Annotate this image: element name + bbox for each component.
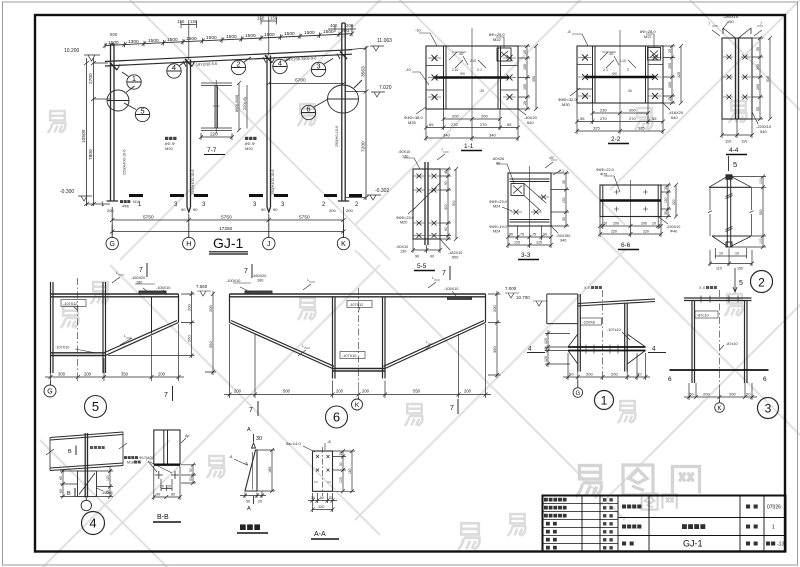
- svg-text:M20: M20: [165, 146, 174, 151]
- svg-text:07026: 07026: [767, 505, 781, 511]
- svg-text:5: 5: [140, 107, 144, 116]
- leader -182X10 500 right bottom 5-5: [440, 239, 450, 250]
- svg-text:540: 540: [760, 129, 767, 134]
- svg-text:H: H: [186, 241, 191, 248]
- bolts 3-3: [511, 195, 549, 215]
- section marks 7 detail6: [252, 264, 458, 416]
- end ticks detail4: [50, 432, 123, 471]
- svg-text:1500: 1500: [284, 31, 295, 37]
- top chamfer 4-4: [723, 28, 751, 38]
- svg-text:30: 30: [256, 436, 262, 442]
- title 6-6: [618, 242, 639, 250]
- svg-text:200: 200: [234, 389, 242, 394]
- centre line 6-6: [630, 180, 632, 222]
- label -87x10 detail3: [720, 345, 725, 350]
- column G: [111, 44, 115, 201]
- column centre dash detail6: [358, 288, 360, 385]
- svg-text:340: 340: [560, 239, 566, 243]
- bolts 4-4: [723, 55, 751, 100]
- left dimension chain: [84, 58, 110, 206]
- column centre dash detail1: [602, 290, 604, 378]
- svg-text:5a=14.0: 5a=14.0: [286, 441, 301, 446]
- svg-text:Z10: Z10: [470, 59, 476, 63]
- svg-text:L: L: [307, 278, 309, 282]
- svg-text:65: 65: [429, 122, 434, 127]
- corbel bolts detail1: [586, 345, 618, 354]
- svg-text:Φ40: Φ40: [670, 230, 677, 234]
- column H: [187, 60, 191, 213]
- label -107x10 detail1: [622, 332, 630, 340]
- svg-text:120: 120: [106, 475, 110, 481]
- svg-text:4: 4: [278, 59, 282, 68]
- svg-text:105: 105: [339, 477, 343, 483]
- svg-text:-105X10: -105X10: [444, 287, 458, 291]
- svg-text:65: 65: [507, 122, 512, 127]
- svg-text:7: 7: [244, 268, 248, 275]
- section outline B-B: [154, 430, 180, 464]
- bottom dim detail1: [563, 353, 650, 380]
- shaft break marks 5: [726, 194, 733, 232]
- svg-text:90: 90: [637, 372, 642, 377]
- svg-text:-13: -13: [777, 542, 784, 548]
- svg-text:7: 7: [450, 405, 454, 412]
- svg-text:200: 200: [452, 114, 459, 119]
- right inner extension line 5: [750, 187, 754, 236]
- svg-text:25: 25: [339, 452, 343, 456]
- title 3-3: [518, 252, 539, 260]
- diagonal brace mark 5-5: [413, 183, 440, 210]
- svg-text:220(-8): 220(-8): [242, 96, 247, 110]
- svg-text:4: 4: [89, 516, 96, 531]
- svg-text:17250: 17250: [219, 226, 233, 232]
- svg-text:510: 510: [766, 76, 770, 82]
- wind column connection notes: [165, 137, 257, 151]
- svg-text:500: 500: [452, 200, 456, 206]
- svg-text:1500: 1500: [245, 33, 256, 39]
- svg-text:200: 200: [586, 372, 593, 377]
- svg-text:35: 35: [106, 490, 110, 494]
- embedded plate note at G base: [120, 200, 140, 209]
- top tent diagonals 5: [709, 176, 752, 188]
- svg-text:-90X10: -90X10: [398, 150, 410, 154]
- stiffener box 1-1: [497, 48, 511, 61]
- base labels: [101, 202, 359, 208]
- title block date cells: [603, 498, 613, 549]
- svg-text:1500: 1500: [226, 34, 237, 40]
- angle seat box 3-3: [511, 184, 524, 196]
- svg-text:640: 640: [671, 115, 678, 120]
- svg-text:200: 200: [329, 208, 336, 213]
- title block row labels: [544, 498, 567, 550]
- svg-text:55: 55: [756, 107, 760, 111]
- beam top flange detail6: [230, 294, 486, 297]
- svg-text:200: 200: [641, 222, 647, 226]
- top flange 3-3: [510, 179, 550, 182]
- svg-text:6: 6: [306, 105, 310, 114]
- detail number 4 bubble: [82, 512, 105, 535]
- svg-text:90: 90: [569, 372, 574, 377]
- anchor 5 leader into column detail3: [733, 268, 737, 292]
- svg-text:150: 150: [190, 19, 198, 24]
- svg-text:200: 200: [464, 389, 472, 394]
- I-section detail 7-7 inside frame: [201, 80, 232, 134]
- bottom dims wedge: [240, 491, 266, 498]
- svg-text:250(H400-19-6: 250(H400-19-6: [271, 169, 275, 195]
- centre line 1-1: [471, 28, 473, 118]
- leader -10 top left 1-1: [419, 33, 437, 46]
- weld flags 4-4: [712, 26, 763, 36]
- right dim chain 3-3: [551, 171, 569, 228]
- leader bolt labels 3-3: [489, 200, 507, 209]
- svg-text:75: 75: [520, 233, 524, 237]
- svg-text:L10: L10: [620, 59, 626, 63]
- svg-text:X.X: X.X: [584, 286, 591, 290]
- svg-text:-107X12: -107X12: [349, 303, 363, 307]
- svg-text:L: L: [302, 344, 304, 348]
- svg-text:-25X150: -25X150: [556, 234, 570, 238]
- svg-text:M30: M30: [562, 102, 571, 107]
- detail bubble 4 (right): [273, 57, 292, 74]
- bottom dim chains 1-1: [424, 109, 520, 141]
- svg-text:G: G: [109, 241, 114, 248]
- leader bolt label 5-5: [396, 216, 414, 225]
- right dim chain 2-2: [663, 44, 683, 105]
- leader right B-B: [181, 438, 186, 443]
- leader -220X10 40 6-6: [658, 217, 668, 225]
- leader -160X20 180 detail5: [135, 284, 155, 292]
- svg-text:350: 350: [121, 372, 129, 377]
- svg-text:7800: 7800: [88, 149, 94, 160]
- leader -100X10 detail6: [233, 283, 251, 292]
- detail bubble 2: [231, 57, 251, 75]
- roof beam top and bottom flange: [105, 50, 352, 66]
- svg-text:7: 7: [164, 392, 168, 399]
- level mark -0.302: [367, 188, 389, 200]
- weld flags top right 3-3: [545, 160, 561, 175]
- svg-text:4: 4: [528, 346, 532, 353]
- leader -8 top left 2-2: [572, 34, 588, 46]
- svg-text:7: 7: [708, 22, 710, 26]
- svg-text:7.560: 7.560: [196, 284, 208, 289]
- svg-text:Φ6Φ=23.0: Φ6Φ=23.0: [489, 200, 507, 204]
- svg-text:1500: 1500: [206, 35, 217, 41]
- svg-text:4: 4: [652, 346, 656, 353]
- bottom dim chains 3-3: [506, 226, 553, 248]
- detail bubble 6: [301, 99, 329, 120]
- svg-text:400: 400: [330, 23, 338, 28]
- svg-text:7200: 7200: [361, 141, 367, 152]
- svg-text:-220X8: -220X8: [583, 320, 595, 324]
- grid bubble G detail5: [44, 381, 56, 397]
- svg-text:220: 220: [611, 230, 617, 234]
- svg-text:220: 220: [643, 230, 649, 234]
- detail number 5 bubble: [85, 396, 107, 418]
- left extension line 5: [708, 187, 712, 236]
- svg-text:90: 90: [261, 207, 266, 212]
- svg-text:5750: 5750: [299, 215, 310, 221]
- leader -105X10 detail5: [163, 290, 167, 294]
- svg-text:M16: M16: [127, 461, 134, 465]
- svg-text:90: 90: [444, 181, 448, 185]
- column flanges detail3: [692, 301, 747, 384]
- svg-text:20: 20: [652, 222, 656, 226]
- svg-text:100: 100: [759, 178, 763, 184]
- anchor bolts 1-1: [428, 55, 516, 100]
- title 2-2: [608, 136, 629, 144]
- svg-text:45°: 45°: [609, 52, 615, 56]
- cap plate detail5: [139, 291, 166, 294]
- weld flags detail6: [298, 280, 440, 356]
- svg-text:850(-840): 850(-840): [234, 94, 239, 112]
- svg-text:180: 180: [136, 281, 142, 285]
- svg-text:Φ17(A0): Φ17(A0): [139, 456, 153, 460]
- svg-text:200: 200: [346, 23, 354, 28]
- bottom dim line detail6: [224, 324, 491, 398]
- detail bubble 4 (left): [167, 61, 187, 79]
- svg-text:130: 130: [402, 155, 408, 159]
- leader bolt dia label left 2-2: [558, 97, 578, 107]
- right haunch flange detail6: [384, 321, 486, 369]
- svg-text:220: 220: [210, 132, 218, 137]
- vertical member detail4: [85, 433, 87, 498]
- svg-text:50: 50: [339, 462, 343, 466]
- section mark 7 bottom detail5: [172, 386, 174, 401]
- svg-text:-105X10: -105X10: [156, 286, 170, 290]
- svg-text:Σ10: Σ10: [452, 68, 458, 72]
- boxed label -107X12 detail5: [61, 300, 86, 311]
- svg-text:GJ-1: GJ-1: [213, 235, 244, 251]
- svg-text:45°: 45°: [459, 52, 465, 56]
- stiffener box 2-2: [648, 48, 661, 61]
- right dim wedge: [257, 448, 275, 493]
- boxed label -87c10 detail3: [695, 311, 718, 318]
- leader -90X10 130 top 5-5: [404, 158, 420, 169]
- svg-text:220(H400-19-6: 220(H400-19-6: [123, 149, 127, 175]
- svg-text:150: 150: [737, 267, 743, 271]
- beam bottom flange over column detail6: [333, 369, 386, 372]
- svg-text:10: 10: [735, 252, 739, 256]
- svg-text:-182X10: -182X10: [448, 251, 462, 255]
- bolt rows 5-5: [414, 174, 440, 239]
- label -150x8 detail4: [97, 488, 104, 491]
- cap plate detail3: [684, 298, 752, 301]
- svg-text:110: 110: [741, 139, 748, 144]
- weld flag detail5: [112, 275, 124, 283]
- ellipse callout at G column: [107, 86, 135, 111]
- grid bubble K detail6: [352, 397, 363, 410]
- level mark 10.200: [64, 48, 100, 61]
- svg-text:-87c10: -87c10: [697, 313, 709, 317]
- bottom dim chains 2-2: [575, 103, 665, 134]
- svg-text:4Φ6: 4Φ6: [122, 205, 129, 209]
- svg-text:3-3: 3-3: [521, 252, 531, 259]
- svg-text:270: 270: [600, 116, 607, 121]
- right dim chains detail5: [108, 291, 216, 375]
- left dim chain detail1: [545, 330, 570, 367]
- svg-text:500: 500: [110, 32, 118, 37]
- watermark yi glyphs: [48, 101, 747, 549]
- svg-text:M27: M27: [644, 34, 653, 39]
- vertical member labels along columns: [123, 126, 340, 195]
- svg-text:35: 35: [664, 186, 668, 190]
- svg-text:200: 200: [208, 305, 213, 312]
- svg-text:Φ70: Φ70: [600, 173, 607, 177]
- svg-text:6: 6: [668, 376, 672, 383]
- svg-text:5: 5: [733, 160, 737, 169]
- column web 1-1: [434, 76, 509, 79]
- svg-text:270: 270: [629, 116, 636, 121]
- svg-text:340: 340: [489, 133, 496, 138]
- svg-text:90: 90: [430, 255, 434, 259]
- watermark big logo text: [576, 465, 700, 510]
- title 5-5: [414, 263, 435, 271]
- svg-text:M20: M20: [245, 146, 254, 151]
- svg-text:2.1: 2.1: [559, 169, 564, 173]
- svg-text:30: 30: [311, 496, 315, 500]
- splice centre plates 4-4: [736, 38, 739, 119]
- title block outline: [543, 496, 786, 552]
- 6700 dim between J and K: [267, 82, 346, 86]
- svg-text:50: 50: [246, 500, 250, 504]
- small circle detail4: [81, 498, 91, 511]
- svg-text:20: 20: [689, 392, 694, 397]
- svg-text:500: 500: [452, 256, 458, 260]
- leader bolt dia label bottom left 1-1: [404, 115, 424, 125]
- svg-text:L: L: [116, 271, 118, 275]
- right dim chains A-A: [333, 449, 355, 493]
- right dim B-B: [181, 463, 196, 485]
- svg-text:1500: 1500: [167, 37, 178, 43]
- eave haunch marks at columns: [110, 52, 347, 71]
- svg-text:55: 55: [756, 47, 760, 51]
- svg-text:Ap: Ap: [185, 434, 189, 438]
- svg-text:-0.302: -0.302: [375, 188, 389, 194]
- web plate 6-6: [600, 199, 661, 201]
- svg-text:-60X26: -60X26: [492, 157, 504, 161]
- column J: [267, 56, 271, 213]
- svg-text:150: 150: [668, 82, 672, 88]
- svg-text:10.200: 10.200: [64, 48, 80, 54]
- svg-text:GJ-1: GJ-1: [683, 539, 703, 549]
- svg-text:200: 200: [336, 389, 344, 394]
- 7-7 dim 220: [199, 133, 234, 140]
- column centre dash detail3: [719, 290, 721, 390]
- svg-text:1: 1: [601, 394, 608, 408]
- anchor bolts 2-2: [578, 55, 662, 100]
- svg-text:5: 5: [92, 399, 99, 414]
- drawing title GJ-1: [209, 235, 248, 254]
- svg-text:6-6: 6-6: [621, 242, 631, 249]
- left haunch flange detail6: [230, 321, 335, 369]
- svg-text:150: 150: [270, 16, 278, 21]
- svg-text:2.1: 2.1: [477, 68, 482, 72]
- svg-text:M24: M24: [493, 205, 500, 209]
- svg-text:340: 340: [443, 133, 450, 138]
- bottom flange 3-3: [510, 220, 550, 223]
- svg-text:25: 25: [668, 49, 672, 53]
- title 7-7: [204, 147, 225, 155]
- svg-text:20: 20: [167, 485, 171, 489]
- svg-text:7.000: 7.000: [505, 286, 517, 291]
- svg-text:200: 200: [187, 304, 192, 311]
- svg-text:200: 200: [158, 372, 166, 377]
- svg-text:90: 90: [193, 207, 198, 212]
- section mark 4 left detail1: [527, 352, 545, 354]
- title A-A: [311, 531, 339, 539]
- svg-text:-220X10: -220X10: [666, 225, 680, 229]
- svg-text:20: 20: [603, 222, 607, 226]
- top small dims 150 150 at H and J: [181, 17, 277, 60]
- svg-text:25: 25: [668, 97, 672, 101]
- svg-text:25: 25: [523, 101, 527, 105]
- centre line 3-3: [529, 166, 531, 234]
- svg-text:K: K: [355, 402, 360, 409]
- svg-text:150: 150: [562, 197, 566, 203]
- svg-text:2: 2: [236, 60, 240, 69]
- level 10.700 detail1: [516, 295, 547, 306]
- svg-text:Φ0: Φ0: [460, 72, 465, 76]
- svg-text:5750: 5750: [143, 215, 154, 221]
- column base plates: [107, 200, 350, 202]
- right dim chain detail6: [488, 291, 501, 378]
- svg-text:200: 200: [629, 108, 636, 113]
- bottom anchor plate 5: [712, 235, 752, 237]
- A section marks: [252, 434, 256, 504]
- boxed label -107X12 detail6: [347, 301, 372, 313]
- column K: [342, 23, 345, 201]
- svg-text:150: 150: [668, 63, 672, 69]
- svg-text:30: 30: [628, 89, 632, 93]
- weld flags 1-1: [449, 52, 486, 68]
- svg-text:200: 200: [756, 84, 760, 90]
- svg-text:55: 55: [580, 116, 585, 121]
- svg-text:10500: 10500: [81, 129, 87, 143]
- svg-text:20: 20: [258, 500, 262, 504]
- svg-text:90: 90: [444, 227, 448, 231]
- svg-text:200: 200: [481, 114, 488, 119]
- svg-text:200: 200: [346, 208, 353, 213]
- svg-text:50: 50: [189, 468, 193, 472]
- column K flanges detail6: [333, 297, 386, 379]
- svg-text:1500: 1500: [264, 32, 275, 38]
- svg-text:6700: 6700: [295, 78, 306, 84]
- section 6-6 cut line detail3: [670, 369, 769, 371]
- ellipse callout at K column: [328, 80, 363, 113]
- svg-text:150: 150: [664, 197, 668, 203]
- title block right values: [766, 505, 784, 548]
- svg-text:550: 550: [759, 209, 763, 215]
- svg-text:7: 7: [442, 270, 446, 277]
- svg-text:5750: 5750: [221, 215, 232, 221]
- svg-text:M20: M20: [400, 221, 407, 225]
- weld flag top right 5-5: [437, 152, 449, 160]
- K column top stub dims: [328, 25, 356, 32]
- title block middle values: [682, 524, 705, 529]
- detail bubble 1: [122, 72, 141, 89]
- beam top flange detail5: [51, 294, 179, 297]
- bottom dim 4-4: [720, 119, 754, 138]
- plate outline 1-1: [426, 46, 518, 109]
- svg-text:250(H0-19-6: 250(H0-19-6: [335, 126, 339, 147]
- svg-text:80: 80: [496, 162, 500, 166]
- svg-text:45: 45: [444, 170, 448, 174]
- svg-text:Φ6Φ=19.0: Φ6Φ=19.0: [489, 225, 507, 229]
- diagonal leaders 3-3: [524, 184, 546, 212]
- grid bubble G detail1: [573, 380, 583, 397]
- corbel gussets detail1: [568, 334, 646, 364]
- right dim chain 4-4: [752, 36, 772, 121]
- beam end plate detail5: [178, 294, 180, 323]
